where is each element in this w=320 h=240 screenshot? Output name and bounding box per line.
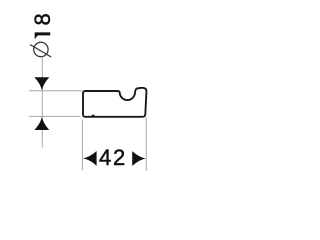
arrow up (Ø18 lower arrowhead) <box>34 117 49 130</box>
svg-text:4: 4 <box>99 145 111 170</box>
hook outline (object profile) <box>83 88 146 117</box>
dimension label Ø18 (rotated, vertical dimension): diameter symbol circle <box>34 42 48 56</box>
diameter symbol slash <box>30 45 51 58</box>
dimension line vertical (Ø18) <box>41 58 43 148</box>
extension line bottom (object bottom edge) <box>29 115 80 117</box>
witness line left (42 dimension) <box>81 120 83 171</box>
extension line top (object top edge) <box>29 90 83 92</box>
digit 1 of Ø18 (rotated, drawn as path: bar with flag) <box>35 32 51 39</box>
svg-text:8: 8 <box>30 13 55 25</box>
arrow right (42 dimension) <box>132 151 146 166</box>
arrow down (Ø18 upper arrowhead) <box>34 77 49 90</box>
svg-text:2: 2 <box>113 145 125 170</box>
detail bump on bottom edge <box>91 115 96 117</box>
witness line right (42 dimension) <box>145 118 147 172</box>
arrow left (42 dimension) <box>83 151 97 166</box>
